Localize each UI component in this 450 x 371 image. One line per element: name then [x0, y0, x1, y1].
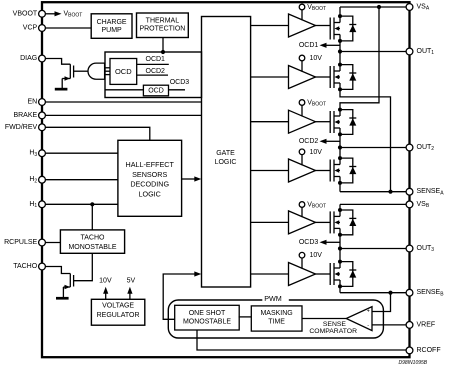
wire gate logic to driver 2 [251, 76, 289, 78]
transistor Q3 high side OUT2 [315, 7, 379, 148]
supply 10V driver 6 [299, 252, 322, 269]
wire VBOOT arrow [45, 10, 82, 18]
wire VSA rail [340, 6, 410, 8]
wire OCD3 arrow [299, 239, 340, 246]
pin SENSEA [406, 188, 413, 195]
wire OUT1 rail [340, 51, 410, 53]
ground below TACHO transistor [56, 297, 69, 300]
wire gate logic to driver 4 [251, 170, 289, 172]
wire OUT3 rail [340, 248, 410, 250]
wire gate logic to driver 1 [251, 25, 289, 27]
op-amp driver A2 low side [289, 66, 316, 89]
pin FWD/REV [39, 124, 46, 131]
svg-text:OCD2: OCD2 [146, 68, 166, 75]
op-amp sense comparator [346, 307, 372, 331]
supply 10V driver 2 [299, 55, 322, 72]
wire gate logic to driver 3 [251, 121, 289, 123]
wire thermal protection to OCD block [162, 38, 164, 53]
op-amp driver A4 low side [289, 159, 316, 182]
svg-text:-: - [367, 322, 369, 328]
svg-text:DIAG: DIAG [20, 55, 37, 62]
main IC boundary box [42, 2, 410, 357]
diode D3 body [338, 108, 356, 137]
op-amp driver A5 high side [289, 211, 316, 234]
node SENSEA junction [388, 190, 392, 194]
svg-text:GATE: GATE [216, 150, 235, 157]
svg-text:REGULATOR: REGULATOR [97, 312, 140, 319]
svg-text:TACHO: TACHO [13, 263, 38, 270]
svg-text:5V: 5V [127, 278, 136, 285]
wire BRAKE to gate logic [42, 114, 202, 116]
svg-text:VBOOT: VBOOT [307, 100, 326, 108]
svg-text:OCD1: OCD1 [299, 42, 319, 49]
svg-text:SENSORS: SENSORS [132, 170, 167, 179]
svg-text:CHARGE: CHARGE [97, 19, 127, 26]
svg-text:VCP: VCP [23, 25, 38, 32]
svg-text:ONE SHOT: ONE SHOT [189, 310, 226, 317]
wire H2 [42, 179, 118, 181]
svg-text:H2: H2 [29, 176, 37, 184]
svg-text:SENSEB: SENSEB [417, 289, 445, 297]
svg-text:OUT3: OUT3 [417, 245, 435, 253]
svg-text:MASKING: MASKING [260, 310, 292, 317]
pin SENSEB [406, 289, 413, 296]
svg-text:RCPULSE: RCPULSE [4, 239, 37, 246]
pin DIAG [39, 55, 46, 62]
pin VREF [406, 322, 413, 329]
wire VSB rail [340, 203, 410, 205]
wire OCD2 [137, 74, 168, 76]
wire SENSEA rail [340, 191, 410, 193]
wire one shot to masking time [239, 316, 252, 318]
svg-text:COMPARATOR: COMPARATOR [309, 328, 357, 335]
charge pump CP [91, 14, 132, 39]
svg-text:VSB: VSB [417, 201, 430, 209]
supply 10V driver 4 [299, 149, 322, 165]
pin OUT2 [406, 144, 413, 151]
svg-text:PROTECTION: PROTECTION [139, 26, 185, 33]
op-amp style AND gate driving DIAG [88, 63, 105, 79]
svg-text:+: + [367, 309, 370, 315]
pin VSA [406, 4, 413, 11]
op-amp driver A3 high side [289, 110, 316, 133]
diode D4 body [338, 156, 356, 185]
svg-text:VBOOT: VBOOT [307, 202, 326, 210]
svg-text:MONOSTABLE: MONOSTABLE [68, 244, 116, 251]
svg-text:OUT2: OUT2 [417, 144, 435, 152]
svg-text:OUT1: OUT1 [417, 48, 435, 56]
svg-text:H3: H3 [29, 150, 37, 158]
label PWM on outline [262, 295, 289, 304]
wire OCD1 [137, 63, 169, 65]
svg-text:OCD: OCD [148, 87, 164, 94]
node OUT2 junction [338, 145, 342, 149]
wire VCP to charge pump [42, 27, 91, 29]
wire OCD3 [169, 89, 186, 91]
wire masking time to comparator [302, 318, 346, 320]
pin OUT3 [406, 245, 413, 252]
svg-text:BRAKE: BRAKE [13, 112, 37, 119]
svg-text:TACHO: TACHO [81, 234, 106, 241]
svg-text:VREF: VREF [417, 321, 436, 328]
svg-text:VBOOT: VBOOT [307, 4, 326, 12]
svg-text:RCOFF: RCOFF [417, 347, 441, 354]
svg-text:H1: H1 [29, 201, 37, 209]
wire AND gate inputs [105, 68, 110, 75]
wire DIAG to transistor drain [42, 59, 70, 65]
svg-text:DECODING: DECODING [130, 180, 169, 189]
supply VBOOT driver 1 [299, 4, 326, 20]
supply VBOOT driver 5 [299, 202, 326, 218]
pin RCOFF [406, 347, 413, 354]
transistor Q6 low side OUT3 [315, 249, 340, 293]
wire hall decoder to gate logic arrow [182, 176, 202, 181]
wire H3 [42, 152, 118, 154]
wire OCD2 arrow [299, 138, 340, 145]
transistor M2 TACHO open drain [63, 274, 73, 298]
wire RCPULSE to tacho monostable [42, 242, 60, 244]
wire SENSEB rail [340, 292, 410, 294]
svg-text:OCD1: OCD1 [146, 56, 166, 63]
svg-text:TIME: TIME [268, 319, 285, 326]
op-amp driver A6 low side [289, 263, 316, 286]
node SENSEB junction [388, 291, 392, 295]
svg-text:OCD3: OCD3 [299, 239, 319, 246]
svg-text:MONOSTABLE: MONOSTABLE [183, 318, 231, 325]
svg-text:VBOOT: VBOOT [13, 10, 38, 17]
wire gate logic to driver 6 [251, 273, 289, 275]
wire 5V output arrow [127, 278, 136, 300]
wire gate logic to driver 5 [251, 221, 289, 223]
wire H1 [42, 203, 118, 205]
OCD main comparator box [110, 59, 137, 85]
svg-text:D98IN1095B: D98IN1095B [399, 360, 428, 366]
svg-text:PWM: PWM [264, 294, 282, 303]
wire into small OCD box [105, 89, 143, 91]
thermal protection block [137, 13, 189, 38]
transistor Q5 high side OUT3 [315, 204, 340, 248]
pin VSB [406, 201, 413, 208]
op-amp driver A1 high side [289, 14, 316, 37]
node OUT3 junction [338, 246, 342, 250]
pin TACHO [39, 263, 46, 270]
node thermal/OCD junction [161, 50, 165, 54]
diode D5 body [338, 208, 356, 237]
wire TACHO pin to transistor drain [42, 267, 70, 274]
pin VCP [39, 25, 46, 32]
svg-text:THERMAL: THERMAL [146, 18, 180, 25]
pin VBOOT [39, 10, 46, 17]
transistor Q1 high side OUT1 [315, 7, 340, 52]
voltage regulator block [91, 299, 144, 325]
svg-text:OCD2: OCD2 [299, 138, 319, 145]
one shot monostable block [175, 305, 240, 330]
svg-text:PUMP: PUMP [101, 27, 122, 34]
tacho monostable block [60, 230, 124, 253]
pin H1 [39, 201, 46, 208]
svg-text:VSA: VSA [417, 4, 430, 12]
wire OUT2 rail [340, 147, 410, 149]
svg-text:LOGIC: LOGIC [139, 189, 161, 198]
pin BRAKE [39, 112, 46, 119]
supply VBOOT driver 3 [299, 100, 326, 117]
svg-text:10V: 10V [310, 252, 323, 259]
node H1 junction [90, 202, 94, 206]
diode D2 body [338, 63, 356, 92]
diode D6 body [338, 260, 356, 289]
svg-text:OCD3: OCD3 [170, 79, 190, 86]
wire FWD/REV to hall decoder [42, 127, 150, 140]
svg-text:10V: 10V [310, 55, 323, 62]
svg-text:OCD: OCD [115, 67, 132, 76]
svg-text:LOGIC: LOGIC [215, 159, 237, 166]
wire VREF to comparator minus input [372, 324, 410, 326]
svg-text:10V: 10V [310, 149, 323, 156]
hall effect sensors decoding logic block [118, 140, 182, 216]
wire one shot to RCOFF [197, 330, 410, 350]
node OUT1 junction [338, 49, 342, 53]
OCD3 small box [143, 85, 168, 96]
svg-text:EN: EN [27, 99, 37, 106]
wire EN to gate logic [42, 101, 202, 103]
wire OCD1 arrow [299, 42, 340, 49]
gate logic block [202, 17, 251, 288]
masking time block [251, 306, 302, 331]
pin RCPULSE [39, 239, 46, 246]
svg-text:10V: 10V [99, 278, 112, 285]
svg-text:VBOOT: VBOOT [64, 10, 83, 18]
transistor M1 DIAG open drain [62, 64, 88, 88]
ground below DIAG transistor [55, 88, 68, 91]
wire 10V output arrow [99, 278, 112, 300]
transistor Q2 low side OUT1 [315, 52, 391, 192]
transistor Q4 low side OUT2 [315, 148, 340, 192]
pin H2 [39, 176, 46, 183]
wire one shot to gate logic arrow [163, 271, 201, 319]
pin OUT1 [406, 48, 413, 55]
wire SENSEB to comparator plus input [372, 293, 391, 312]
svg-text:HALL-EFFECT: HALL-EFFECT [126, 160, 175, 169]
pin H3 [39, 150, 46, 157]
svg-text:SENSEA: SENSEA [417, 188, 445, 196]
node VSA junction [377, 5, 381, 9]
pin EN [39, 99, 46, 106]
diode D1 body [338, 14, 356, 43]
OCD outer block [105, 52, 202, 98]
svg-text:FWD/REV: FWD/REV [5, 124, 38, 131]
wire H1 to tacho monostable [91, 204, 93, 230]
wire tacho monostable to tacho transistor gate [74, 253, 93, 280]
PWM block outline [168, 300, 383, 338]
svg-text:VOLTAGE: VOLTAGE [102, 303, 134, 310]
